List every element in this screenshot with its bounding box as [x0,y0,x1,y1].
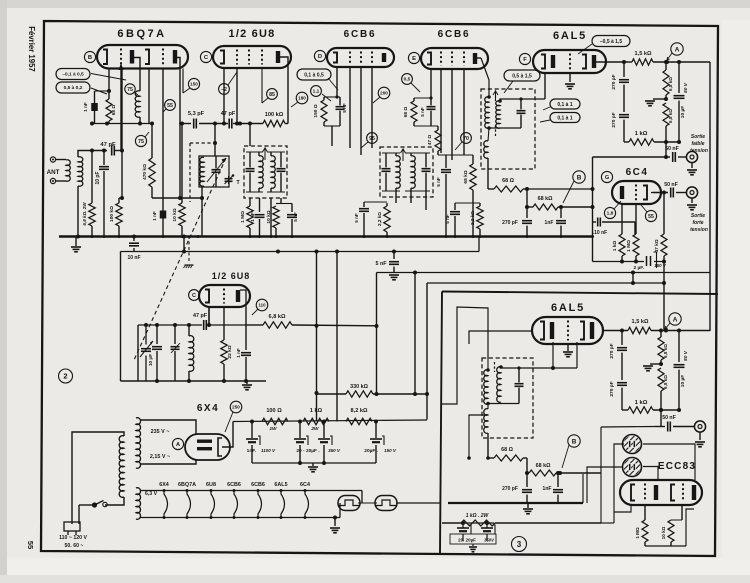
svg-text:75: 75 [127,87,133,93]
svg-text:6X4: 6X4 [159,482,169,488]
svg-text:1 MΩ: 1 MΩ [240,211,246,223]
RD coil right [496,101,500,128]
svg-text:47 pF: 47 pF [100,142,116,148]
svg-text:A: A [673,316,678,323]
svg-text:68 Ω: 68 Ω [403,107,409,118]
resistor 1k v6 [621,204,623,234]
inset label A [669,313,681,325]
heater secondary coil [136,488,141,520]
inset A line [603,330,628,332]
svg-text:350V: 350V [484,538,495,543]
wire plate E to RD [481,58,489,97]
svg-text:6BQ7A: 6BQ7A [117,28,166,40]
svg-text:6,8 kΩ: 6,8 kΩ [269,314,286,320]
svg-text:1/2 6U8: 1/2 6U8 [212,271,251,281]
svg-text:5 nF: 5 nF [445,214,450,224]
RD tertiary coil [484,141,488,159]
svg-text:47 Ω: 47 Ω [427,135,433,146]
svg-text:1 kΩ: 1 kΩ [310,408,323,414]
oval 0.1 a 1 second [550,113,580,123]
svg-text:2: 2 [63,372,67,381]
svg-text:50 nF: 50 nF [664,182,678,188]
tuner tank box [199,156,229,187]
inset tap wire [469,415,486,458]
inset RD tertiary [484,409,488,434]
svg-text:150 V: 150 V [384,448,397,453]
V7 plate lead [208,307,210,325]
capacitor 10pF osc [156,325,158,344]
svg-text:6BQ7A: 6BQ7A [178,482,196,488]
T1 coil left [259,156,263,189]
capacitor 1nF osc [245,345,247,350]
capacitor 5.3pF [179,123,191,125]
svg-text:2,2 kΩ: 2,2 kΩ [377,212,382,226]
oval 0.5 a 1.5 [504,70,540,81]
svg-text:5 nF: 5 nF [354,213,359,223]
tuner bottom lead [201,187,203,237]
IF transformer T1 dashed box [244,146,287,198]
wire line 123 to tuner [152,197,202,199]
svg-text:1 nF: 1 nF [236,348,241,358]
resistor 68k top [526,189,528,207]
wire screen top [324,96,340,98]
svg-text:1nF.: 1nF. [247,448,256,454]
svg-text:6CB6: 6CB6 [344,29,377,40]
sortie forte jack [686,187,697,198]
tuner variable capacitor [212,169,221,171]
inset resistor 1k 2W [442,522,461,524]
wire V1 grid2 down [162,69,164,211]
svg-text:2,2 kΩ: 2,2 kΩ [470,211,475,225]
V5 ground [569,73,571,82]
label 75 circle a [125,84,135,94]
resistor 150ohm [321,100,327,122]
label A psu [172,438,183,449]
HT secondary coil [136,418,141,469]
svg-text:55: 55 [167,103,173,109]
capacitor 10pF [103,151,105,166]
svg-text:A: A [675,46,680,53]
wire V1 cathode2 lead [179,69,181,199]
inset bottom wires [645,545,686,547]
svg-text:tension: tension [690,227,708,233]
resistor 22k osc [221,340,227,364]
svg-text:68 Ω: 68 Ω [111,105,117,116]
resistor 2.2k t1 stub [386,203,388,206]
inset box divider [442,292,718,295]
svg-text:50 nF: 50 nF [665,146,679,152]
osc left vertical [120,252,122,382]
resistor 1k top [624,141,629,143]
svg-text:1 kΩ: 1 kΩ [612,241,618,252]
resistor 470k [151,124,153,159]
resistor 47ohm [437,126,439,130]
T2 capacitor right [422,168,431,170]
svg-text:6,8 kΩ: 6,8 kΩ [663,344,668,358]
svg-text:100 kΩ: 100 kΩ [109,206,115,222]
switch [103,502,107,506]
svg-text:10 kΩ: 10 kΩ [266,210,272,223]
svg-text:tension: tension [690,148,708,154]
tie 272 to 283 [632,273,634,284]
svg-text:2,15 V ~: 2,15 V ~ [150,454,170,460]
svg-text:F: F [523,57,527,63]
label 55 circle [165,100,176,111]
tube V4 6CB6 [421,48,488,69]
svg-text:50 V: 50 V [683,82,689,93]
oval 0.1 a 1 first [550,99,580,109]
wire divider return [592,237,594,262]
filter line [233,420,427,422]
primary bottom wire [105,497,124,505]
label 110 circle [256,299,268,311]
inset capacitor 50nF [655,426,665,428]
svg-text:5 nF: 5 nF [420,107,425,117]
b plus line 2 y283 [427,282,664,284]
T1 capacitor left [246,168,255,170]
svg-text:1100 V: 1100 V [261,448,276,453]
resistor 6.8k mixer [247,324,263,326]
svg-text:5 nF: 5 nF [293,212,298,222]
HT wire top [140,420,196,434]
capacitor 270pF top b [526,207,528,218]
inset output line extension [601,426,655,429]
wire V1 plate2 down [148,69,150,124]
T1 coil right [271,156,275,189]
capacitor 5nF line [392,250,396,254]
label B [84,51,95,62]
HT wire bottom [140,460,196,464]
svg-text:250: 250 [232,405,240,410]
tube V1 pin hooks [134,58,140,69]
resistor 68ohm V1 cathode [108,69,110,100]
svg-text:6CB6: 6CB6 [227,482,241,488]
inset resistor 6.8k a [660,331,662,338]
svg-text:6,3 V: 6,3 V [145,491,158,497]
T2 capacitor left [382,168,391,170]
svg-text:330 kΩ: 330 kΩ [350,384,368,390]
inset RD box [482,358,533,438]
capacitor 50nF forte [670,188,672,198]
RD core dashed [495,91,497,101]
resistor 6.8k top a [665,62,667,70]
IF transformer T2 dashed box [380,147,433,197]
oval pointers V1 [91,74,126,81]
capacitor 1nF V1 [95,90,110,92]
wire to V1 grid [121,69,123,151]
svg-text:B: B [572,438,577,445]
label 200 circle v3 [378,87,390,99]
svg-text:1,5 kΩ: 1,5 kΩ [635,51,652,57]
resistor 2.2k stub2 [479,203,481,206]
inset jacks wires [643,444,695,480]
pilot lamp 1 [338,496,360,511]
svg-text:10 µF: 10 µF [680,375,686,387]
wire V2 grid lead [236,68,238,124]
svg-text:270 pF: 270 pF [611,112,617,127]
antenna coupling coil [56,159,66,161]
svg-text:0,5 à 0,2: 0,5 à 0,2 [64,85,83,91]
svg-text:270 pF: 270 pF [611,74,617,89]
wire v4 grid lead [430,69,432,98]
inset tube ground [567,344,569,351]
inset caps 20 20uF [462,523,464,528]
svg-text:1 nF: 1 nF [83,102,88,112]
wire plate to cap [653,192,668,194]
wire V2 plate lead [223,68,225,124]
capacitor 47pF if [199,123,228,125]
heater rail top [140,490,362,492]
svg-text:20 - 20µF .: 20 - 20µF . [296,448,319,454]
capacitor 1nF on grid2 wire [160,211,167,219]
V5 lead to RD [544,73,546,99]
svg-text:forte: forte [692,220,703,226]
resistor 10k stub [273,206,279,228]
svg-text:1/2 6U8: 1/2 6U8 [229,28,276,40]
inset RD tertiary bottom lead [487,433,489,458]
tube V1 6BQ7A [97,45,188,69]
tuner lead from line123 [214,124,216,157]
capacitor 5nF stub a [291,204,293,213]
svg-text:270 pF: 270 pF [609,381,615,396]
primary coil [119,436,124,498]
wire feed inset A node [663,262,665,332]
bus tie stub [183,237,185,252]
svg-text:faible: faible [691,141,704,147]
svg-text:6,8 kΩ: 6,8 kΩ [668,77,673,91]
svg-text:–0,5 à 1,5: –0,5 à 1,5 [600,39,622,45]
inset capacitor 270pF a [621,331,623,346]
svg-text:8,2 kΩ: 8,2 kΩ [351,408,368,414]
svg-text:150: 150 [190,82,198,87]
svg-text:1W: 1W [269,426,277,432]
svg-text:50 V: 50 V [683,350,689,361]
T2 coil right [411,156,415,189]
lamp wire [396,502,441,504]
label 250 circle [230,401,242,413]
inset RD top wire [501,367,577,368]
svg-text:0,5: 0,5 [404,77,411,83]
label 95 circle [367,133,378,144]
inset RD coil left [487,358,489,370]
capacitor 2uF 150V [646,256,648,266]
svg-text:100 Ω: 100 Ω [266,408,282,414]
label 180 circle [296,92,308,104]
inset capacitor 270pF c [526,473,528,487]
wire 68ohm line to faible [527,188,593,190]
tube V8 6X4 [185,434,230,460]
svg-text:6X4: 6X4 [197,403,219,414]
resistor 1k psu [303,418,329,424]
v4 cluster wires [414,97,431,99]
filter cap 3 [375,422,377,439]
filter ground wire [252,462,376,464]
heater ground [334,518,336,527]
RD wire top [500,99,545,101]
svg-text:ANT: ANT [47,169,60,176]
svg-text:6,8 kΩ: 6,8 kΩ [668,109,673,123]
svg-text:270 pF: 270 pF [502,220,518,226]
svg-text:110 ~ 120 V: 110 ~ 120 V [59,535,87,541]
inset tube ECC83 [620,480,702,505]
filter cap 2a [299,422,301,439]
svg-text:110: 110 [258,303,266,308]
inset resistor 10k [668,520,674,542]
pilot lamp 2 [375,496,397,511]
svg-text:1,5 kΩ: 1,5 kΩ [632,319,649,325]
svg-text:235 V ~: 235 V ~ [151,429,170,435]
svg-text:68 Ω: 68 Ω [501,447,513,453]
V1 cathode coil [139,69,141,92]
svg-text:150 V: 150 V [654,263,667,268]
supply line y272 [377,272,711,274]
wire v3 plate down [349,67,351,148]
resistor 330k [317,393,347,395]
label 85 circle [267,89,278,100]
y251 line right corner [478,237,480,252]
svg-text:3: 3 [517,540,522,549]
svg-text:10 kΩ: 10 kΩ [172,208,178,221]
T2 coil left [396,156,400,189]
wire screen bottom [324,125,340,127]
tube V2 half 6U8 [213,46,291,68]
osc variable cap [137,325,139,381]
inset resistor 1M [642,520,648,542]
tuner coil [200,157,204,186]
RD coil left [485,97,489,129]
capacitor 5nF t2 stub [445,155,447,168]
svg-text:ECC83: ECC83 [658,461,696,472]
svg-text:10 pF: 10 pF [148,354,153,366]
oval 0.1-0.5 V2 [297,69,331,80]
svg-text:1 MΩ: 1 MΩ [626,240,632,252]
label 150 circle [188,78,199,89]
capacitor 1nF top b [560,207,562,218]
svg-text:1 nF: 1 nF [250,212,255,222]
svg-text:–0,1 à 0,5: –0,1 à 0,5 [62,72,84,78]
heater rail bottom [140,517,340,519]
resistor 1M [247,206,253,228]
svg-text:1 kΩ: 1 kΩ [635,131,648,137]
RD wire bottom [489,127,521,129]
wire antenna coil bottom [77,186,79,236]
long vertical 337 [336,252,338,422]
inset input wire [442,307,488,404]
ratio detector dashed box [481,89,535,169]
tube V7 half 6U8 [199,285,250,307]
svg-text:200: 200 [380,91,388,96]
chassis ground bus [59,235,593,238]
svg-text:55: 55 [26,541,35,550]
svg-text:10 pF: 10 pF [95,171,101,184]
wire v3 grid down [336,67,338,97]
inset RD core dashed [494,362,496,372]
ground mid divider [653,98,666,100]
inset output jack [694,421,705,432]
svg-text:1nF: 1nF [545,220,554,226]
svg-text:E: E [412,56,416,62]
ground bus stubs dots [91,235,94,238]
resistor 8.2k psu [346,418,372,424]
svg-text:75: 75 [138,139,144,145]
resistor 10k v1 stub [181,124,183,204]
resistor 100k screen [240,123,263,125]
svg-text:85: 85 [269,92,275,98]
inset resistor 68k [526,458,528,473]
supply line corner down 376 [376,273,378,395]
filter cap 2b [323,422,325,439]
svg-text:Sortie: Sortie [691,213,705,219]
capacitor 5nF v4 [427,106,436,108]
inset b wire down [582,474,584,503]
inset capacitor 10uF [678,331,680,363]
inset RD cap [515,383,524,385]
inset label B [568,435,580,447]
oval 0.5 a 0.2 V1 [56,82,90,93]
label 70 circle [461,133,472,144]
figure number 3 [512,537,527,552]
filter cap 1 [251,422,253,439]
T2 bars [382,152,400,154]
tube V3 6CB6 [327,48,394,67]
svg-text:Sortie: Sortie [691,134,705,140]
resistor 68ohm v4 [411,101,417,122]
inset tube left bar lead [552,342,554,368]
tube V2 pin hook [280,57,288,68]
label -2 circle [219,84,230,95]
circle 55b [645,210,656,221]
svg-text:68 Ω: 68 Ω [502,178,514,184]
svg-text:350 V: 350 V [328,448,341,453]
inset RD coil right [497,367,501,403]
resistor 68k t2 [472,155,474,164]
circle 1.1 [311,86,322,97]
label G [601,171,612,182]
wire antenna top [78,151,107,158]
sortie faible jack [686,151,697,162]
svg-text:68 kΩ: 68 kΩ [538,196,553,202]
circle 1.8 [604,207,615,218]
svg-text:B: B [88,55,92,61]
plug [78,505,80,524]
svg-text:D: D [318,54,322,60]
capacitor 1nF stub [255,214,265,216]
ECC83 pin leads [644,505,646,520]
svg-text:1 nF: 1 nF [152,211,157,221]
ground bus symbol [75,237,77,247]
svg-text:6AL5: 6AL5 [274,482,287,488]
inset tube 6AL5 [532,317,603,344]
capacitor 50nF faible [665,142,667,157]
svg-text:6AL5: 6AL5 [551,302,585,314]
svg-text:68 kΩ: 68 kΩ [463,170,469,183]
svg-text:22 kΩ: 22 kΩ [227,345,233,358]
svg-text:100 kΩ: 100 kΩ [265,112,284,118]
figure number 2 [59,369,73,383]
svg-text:0,1 à 0,5: 0,1 à 0,5 [304,72,324,78]
capacitor 47pF antenna [111,146,113,156]
svg-text:6,8 kΩ: 6,8 kΩ [663,375,668,389]
label F [519,53,530,64]
dashed gang line [134,158,226,360]
B plus bus y251 [121,251,480,253]
T1 leads [249,124,251,147]
inset hatched jack 1 [623,435,642,454]
svg-text:1,1: 1,1 [313,89,320,95]
svg-text:47 pF: 47 pF [193,313,208,319]
svg-text:5 nF: 5 nF [436,177,441,187]
label 0.5 circle [402,74,413,85]
